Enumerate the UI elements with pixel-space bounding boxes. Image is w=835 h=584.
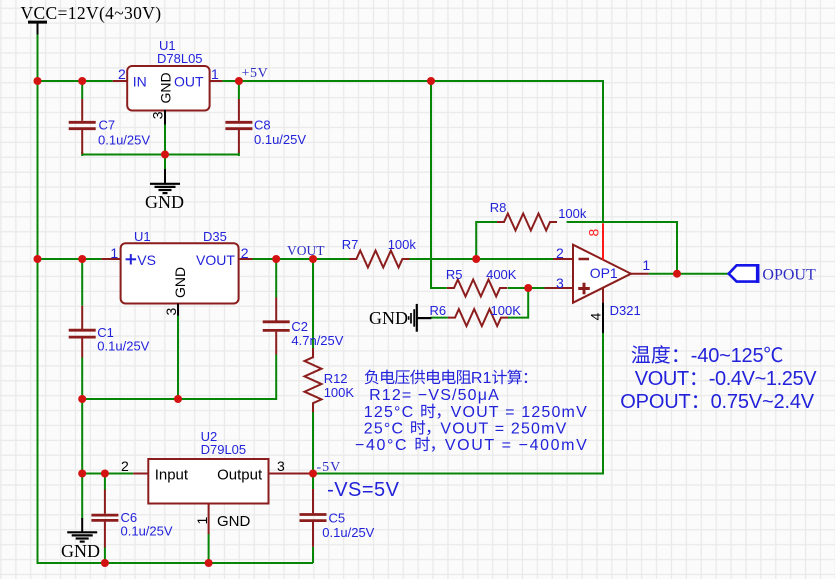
svg-text:GND: GND: [369, 308, 408, 328]
svg-text:VS: VS: [137, 252, 156, 268]
svg-text:R8: R8: [490, 200, 507, 215]
wire C6 bottom: [104, 547, 106, 563]
D35 pin 1 stub: [101, 258, 120, 260]
svg-text:-40~125: -40~125: [691, 345, 764, 367]
junction 18 at (104.9,563): [101, 559, 109, 567]
svg-text:VOUT = 1250mV: VOUT = 1250mV: [451, 404, 588, 421]
OP1 pin 4 stub: [602, 288, 604, 303]
svg-text:100K: 100K: [491, 303, 522, 318]
wire divider node down to R6: [508, 288, 528, 318]
svg-text:Output: Output: [217, 466, 263, 483]
wire left gnd column to earth: [81, 399, 83, 519]
OP1 output pin 1 stub: [631, 273, 649, 275]
svg-text:VOUT: VOUT: [635, 368, 689, 390]
junction 12 at (677,273.7): [673, 270, 681, 278]
wire R12 bottom: [312, 412, 314, 474]
svg-text:R12: R12: [324, 371, 348, 386]
U1 pin 2 stub: [113, 80, 128, 82]
junction 3 at (238.9,81): [235, 77, 243, 85]
wire C1 bottom: [81, 357, 83, 399]
svg-text:U1: U1: [134, 229, 151, 244]
wire C6 top: [104, 474, 106, 491]
OP1 pin 8 stub red: [602, 223, 604, 260]
svg-text:VOUT: VOUT: [196, 252, 235, 268]
svg-text:OPOUT: OPOUT: [620, 391, 690, 413]
svg-text:R6: R6: [430, 303, 447, 318]
wire R8 to output node: [567, 222, 677, 274]
OP1 pin 2 stub: [553, 258, 573, 260]
D35 pin 3 gnd stub: [177, 304, 179, 316]
svg-text:1: 1: [110, 245, 118, 261]
svg-text:1: 1: [194, 517, 210, 525]
svg-text:0.1u/25V: 0.1u/25V: [322, 525, 374, 540]
wire C1 top: [81, 259, 83, 306]
svg-text:100k: 100k: [388, 237, 417, 252]
junction 2 at (82.2,81): [78, 77, 86, 85]
junction 7 at (82.2,259): [78, 255, 86, 263]
junction 17 at (313,473.5): [309, 470, 317, 478]
svg-text:3: 3: [556, 275, 564, 291]
wire C2 bottom: [275, 355, 277, 401]
resistor R5: [447, 280, 507, 297]
svg-text:D35: D35: [203, 229, 227, 244]
svg-text:-5V: -5V: [317, 460, 342, 475]
svg-text:−40°C: −40°C: [355, 437, 408, 454]
svg-text:C8: C8: [254, 118, 271, 133]
wire C7 bottom: [81, 152, 83, 156]
wire D35 gnd pin to rail: [177, 315, 179, 399]
U2 pin 2 stub: [133, 473, 148, 475]
svg-text:VCC=12V(4~30V): VCC=12V(4~30V): [21, 3, 162, 23]
svg-text:OUT: OUT: [174, 74, 204, 90]
svg-text:R12= −VS/50μA: R12= −VS/50μA: [369, 387, 500, 404]
U2 pin 3 stub: [269, 473, 311, 475]
capacitor C7: [81, 99, 83, 121]
capacitor C6: [104, 490, 106, 514]
svg-text:C2: C2: [291, 319, 308, 334]
junction 14 at (178,399): [174, 395, 182, 403]
junction 19 at (208.6,563): [205, 559, 213, 567]
port OPOUT: [729, 265, 758, 281]
svg-text:4.7n/25V: 4.7n/25V: [291, 333, 343, 348]
svg-text:2: 2: [118, 66, 126, 82]
svg-text:25°C: 25°C: [364, 421, 404, 438]
junction 10 at (476.2,259): [472, 255, 480, 263]
U2 gnd pin stub: [208, 504, 210, 535]
svg-text:400K: 400K: [486, 267, 517, 282]
OP1 plus sign: [578, 287, 590, 290]
svg-text:0.1u/25V: 0.1u/25V: [98, 133, 150, 148]
svg-text:2: 2: [241, 245, 249, 261]
svg-text:D321: D321: [610, 303, 641, 318]
svg-text:100K: 100K: [324, 385, 355, 400]
wire U2 input row: [82, 473, 133, 475]
svg-text:GND: GND: [217, 513, 251, 530]
svg-text:Input: Input: [155, 466, 189, 483]
wire R5 to divider node: [508, 287, 546, 289]
capacitor C1: [81, 306, 83, 329]
svg-text:0.75V~2.4V: 0.75V~2.4V: [711, 391, 815, 413]
wire gnd to R6: [431, 317, 448, 319]
resistor R6: [448, 309, 508, 326]
svg-text:GND: GND: [145, 192, 184, 212]
junction 8 at (276.2,259): [272, 255, 280, 263]
resistor R8: [497, 214, 557, 231]
wire VOUT rail right of D35: [252, 258, 350, 260]
junction 11 at (528.2,288): [524, 284, 532, 292]
wire top +5V rail right of U1 down to OP1 pin8: [222, 81, 603, 221]
wire U2 gnd pin to bottom rail: [208, 534, 210, 564]
junction 15 at (82.2,473.5): [78, 470, 86, 478]
svg-text:125°C: 125°C: [364, 404, 415, 421]
wire mid rail left of U1 D35: [38, 258, 102, 260]
resistor R7: [349, 251, 409, 268]
svg-text:R7: R7: [342, 237, 359, 252]
svg-text:1: 1: [642, 257, 650, 273]
svg-text:4: 4: [588, 313, 604, 321]
wire U1 gnd pin to rail and to earth: [164, 124, 166, 170]
junction 1 at (37.5,81): [34, 77, 42, 85]
D35 pin name +VS: [126, 258, 137, 260]
svg-text:IN: IN: [133, 74, 147, 90]
svg-text:-0.4V~1.25V: -0.4V~1.25V: [709, 368, 817, 390]
svg-text:GND: GND: [172, 267, 188, 298]
svg-text:3: 3: [277, 458, 285, 474]
wire R12 top: [312, 259, 314, 349]
svg-text:GND: GND: [158, 72, 174, 103]
wire C8 bottom: [238, 152, 240, 157]
svg-text:C7: C7: [99, 118, 116, 133]
svg-text:VOUT: VOUT: [287, 243, 325, 258]
wire OP1 output to port OPOUT: [649, 273, 729, 275]
svg-text:0.1u/25V: 0.1u/25V: [254, 132, 306, 147]
svg-text:D79L05: D79L05: [201, 442, 247, 457]
svg-text:+5V: +5V: [242, 66, 269, 81]
wire OP1 pin4 down and -5V rail: [313, 333, 603, 474]
op-amp OP1 body: [573, 245, 631, 303]
svg-text:100k: 100k: [558, 206, 587, 221]
wire C7 top: [81, 81, 83, 99]
wire inverting node up to R8: [476, 222, 497, 259]
wire C5 bottom: [312, 547, 314, 563]
svg-text:R1: R1: [471, 370, 492, 387]
OP1 minus sign: [579, 258, 590, 261]
svg-text:2: 2: [121, 458, 129, 474]
wire gnd rail under D35: [82, 398, 276, 400]
junction 9 at (313,259): [309, 255, 317, 263]
junction 5 at (165,154.5): [161, 151, 169, 159]
junction 13 at (82.2,399): [78, 395, 86, 403]
U1 pin 1 stub: [210, 80, 223, 82]
wire top +5V rail left of U1: [37, 80, 113, 82]
svg-text:D78L05: D78L05: [157, 51, 203, 66]
capacitor C2: [275, 298, 277, 321]
power port VCC bar: [28, 21, 47, 24]
svg-text:VOUT = 250mV: VOUT = 250mV: [440, 421, 567, 438]
junction 4 at (431,81): [427, 77, 435, 85]
D35 pin 2 stub: [239, 258, 253, 260]
ground earth under U1: [164, 169, 166, 183]
svg-text:1: 1: [211, 66, 219, 82]
resistor R12: [305, 348, 322, 412]
wire C2 top: [275, 259, 277, 298]
svg-text:-VS=5V: -VS=5V: [327, 479, 400, 501]
svg-text:3: 3: [163, 308, 179, 316]
ground earth bottom left: [81, 518, 83, 532]
wire +5V drop to R5: [431, 82, 447, 288]
svg-text:8: 8: [586, 229, 602, 237]
svg-text:0.1u/25V: 0.1u/25V: [121, 524, 173, 539]
regulator U2 D79L05 body: [148, 459, 268, 504]
U1 pin 3 gnd stub: [164, 110, 166, 125]
junction 16 at (104.9,473.5): [101, 470, 109, 478]
svg-text:VOUT = −400mV: VOUT = −400mV: [445, 437, 589, 454]
annotation line 负电压供电电阻R1计算: [365, 370, 379, 385]
annotation 温度 range: [632, 345, 650, 363]
wire C5 top: [312, 474, 314, 490]
junction 6 at (37.5,259): [34, 255, 42, 263]
wire C8 top: [238, 81, 240, 99]
wire left VCC rail + bottom rail: [38, 35, 314, 564]
ground power port at R6: [417, 317, 432, 319]
OP1 pin 3 stub: [545, 287, 574, 289]
svg-text:3: 3: [150, 111, 166, 119]
svg-text:GND: GND: [61, 541, 100, 561]
svg-text:OPOUT: OPOUT: [762, 267, 816, 284]
wire VOUT rail R7 to OP1 pin2: [409, 258, 554, 260]
svg-text:2: 2: [556, 245, 564, 261]
svg-text:0.1u/25V: 0.1u/25V: [97, 339, 149, 354]
regulator U1 D78L05 body: [127, 66, 209, 111]
capacitor C8: [238, 99, 240, 121]
svg-text:R5: R5: [446, 267, 463, 282]
capacitor C5: [312, 489, 314, 513]
svg-text:C5: C5: [329, 511, 346, 526]
svg-text:OP1: OP1: [590, 265, 618, 281]
sensor U1 D35 body: [121, 243, 239, 303]
wire gnd rail under U1 regulator: [82, 154, 239, 156]
